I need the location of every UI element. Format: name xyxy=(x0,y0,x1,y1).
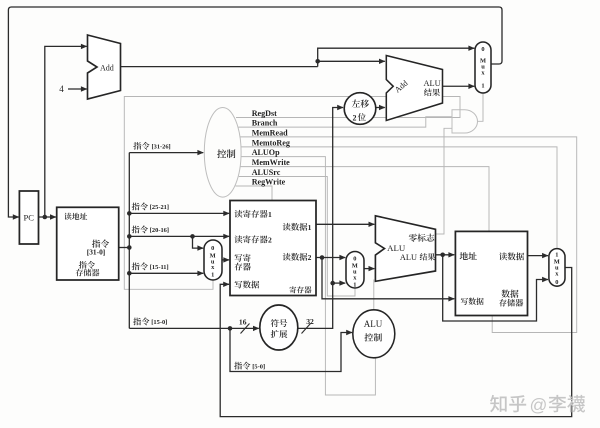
wire instruction [20-16] branch to RegDst mux input 0 xyxy=(190,234,204,251)
wire instruction [15-11] to RegDst mux input 1 xyxy=(127,271,204,276)
sign extend unit xyxy=(260,305,298,350)
instruction field label [15-0] xyxy=(133,318,167,327)
svg-text:[15-11]: [15-11] xyxy=(150,264,169,271)
svg-text:ALUSrc: ALUSrc xyxy=(252,168,281,177)
wire instruction [15-0] to sign extend xyxy=(129,326,259,331)
wire ALUSrc mux output to ALU xyxy=(364,266,375,271)
node PC+4 junction xyxy=(315,59,320,64)
watermark zhihu xyxy=(490,395,585,415)
wire instruction memory output to instruction bus xyxy=(119,247,130,249)
svg-text:MemtoReg: MemtoReg xyxy=(252,138,290,147)
control unit xyxy=(204,108,241,198)
register file xyxy=(230,201,316,296)
wire read data 2 branch to memory write data xyxy=(322,258,455,302)
svg-text:[15-0]: [15-0] xyxy=(151,319,167,326)
wire ALU result to data memory address xyxy=(436,252,455,257)
wire constant 4 into Add xyxy=(68,86,87,91)
mux RegDst (write register select) xyxy=(204,240,222,280)
svg-text:@: @ xyxy=(530,395,548,415)
svg-text:[25-21]: [25-21] xyxy=(150,204,169,211)
wire ALU control output to ALU xyxy=(373,280,375,310)
svg-text:MemRead: MemRead xyxy=(252,129,288,138)
wire MemRead control signal xyxy=(240,137,577,333)
PC register xyxy=(19,191,38,244)
svg-text:RegDst: RegDst xyxy=(252,109,277,118)
label 32 bits with slash xyxy=(302,317,315,334)
shift left 2 unit xyxy=(344,93,376,125)
wire read data 1 to ALU xyxy=(316,222,375,227)
value 4 constant xyxy=(59,84,64,94)
instruction memory xyxy=(57,207,119,280)
svg-text:2: 2 xyxy=(268,236,272,245)
wire Zero flag to AND gate xyxy=(436,128,452,234)
svg-text:1: 1 xyxy=(481,83,484,90)
svg-text:1: 1 xyxy=(308,223,312,232)
svg-text:ALU: ALU xyxy=(387,243,406,253)
svg-text:PC: PC xyxy=(24,213,35,223)
wire Branch control signal xyxy=(239,117,452,127)
svg-text:[31-0]: [31-0] xyxy=(87,248,105,257)
mux PC source (0/1) xyxy=(475,42,491,93)
adder Add (branch target) xyxy=(386,56,442,121)
wire instruction [20-16] to read register 2 xyxy=(127,234,230,239)
svg-text:1: 1 xyxy=(353,282,356,289)
wire Add result to PC mux input 0 xyxy=(121,46,475,67)
svg-text:[31-26]: [31-26] xyxy=(152,144,171,151)
instruction field label [25-21] xyxy=(132,203,169,212)
svg-text:[20-16]: [20-16] xyxy=(150,227,169,234)
svg-text:2: 2 xyxy=(308,253,312,262)
data memory xyxy=(455,231,527,315)
svg-text:4: 4 xyxy=(59,84,64,94)
wire instruction [31-26] to control xyxy=(129,150,204,155)
wire PC feedback from mux to PC xyxy=(8,7,502,220)
mux MemtoReg result (1/0) xyxy=(549,249,565,287)
instruction field label [20-16] xyxy=(132,226,169,235)
adder Add (PC+4) xyxy=(88,35,121,99)
wire RegDst mux output to write register xyxy=(222,257,230,262)
node instruction bus entry xyxy=(127,245,132,250)
svg-text:1: 1 xyxy=(268,210,272,219)
wire instruction [5-0] to ALU control xyxy=(230,328,353,371)
wire read data 2 to ALUSrc mux input 0 xyxy=(316,255,346,260)
control signal labels xyxy=(252,109,290,186)
svg-text:Branch: Branch xyxy=(252,118,278,127)
svg-text:0: 0 xyxy=(555,279,558,286)
wire shift-left-2 to branch Add xyxy=(376,105,385,110)
wire PC to instruction memory xyxy=(39,214,57,219)
svg-text:1: 1 xyxy=(211,272,214,279)
svg-text:Add: Add xyxy=(100,63,114,72)
wire sign extend output to shift-left and ALUSrc mux xyxy=(298,105,344,329)
instruction field label [5-0] xyxy=(234,362,265,371)
instruction field label [31-26] xyxy=(133,142,170,151)
svg-text:2: 2 xyxy=(353,113,357,122)
svg-text:0: 0 xyxy=(353,255,356,262)
wire PC+4 to branch Add xyxy=(318,59,386,64)
wire memory read data to result mux input 1 xyxy=(528,253,549,258)
svg-text:ALU: ALU xyxy=(364,319,383,329)
wire sign extend branch to ALUSrc mux input 1 xyxy=(333,280,346,285)
wire ALUOp control signal xyxy=(241,157,375,395)
svg-text:ALU: ALU xyxy=(424,79,441,88)
svg-text:16: 16 xyxy=(239,317,247,326)
wire RegWrite control signal xyxy=(236,186,273,201)
svg-text:0: 0 xyxy=(481,46,484,53)
wire instruction [25-21] to read register 1 xyxy=(127,211,230,216)
AND gate (branch) xyxy=(452,110,477,133)
wire MemtoReg control signal xyxy=(241,147,557,249)
svg-text:MemWrite: MemWrite xyxy=(252,158,290,167)
wire ALUSrc control signal xyxy=(239,177,355,297)
wire ALU result bypass to result mux input 0 xyxy=(443,255,549,321)
wire instruction bus vertical xyxy=(128,153,130,329)
wire MemWrite control signal xyxy=(241,167,490,232)
label 16 bits with slash xyxy=(239,317,250,333)
node PC output junction xyxy=(43,215,48,220)
wire PC to Add xyxy=(45,44,88,217)
svg-text:ALU: ALU xyxy=(400,253,417,262)
wire RegDst control signal xyxy=(124,97,460,290)
ALU control unit xyxy=(353,310,395,358)
mux ALUSrc xyxy=(346,252,364,289)
svg-text:0: 0 xyxy=(211,245,214,252)
wire AND gate output to PC mux select xyxy=(478,93,484,121)
svg-text:ALUOp: ALUOp xyxy=(252,148,280,157)
svg-text:1: 1 xyxy=(555,251,558,258)
wire write-back from Mux to register write data xyxy=(220,268,572,417)
svg-text:[5-0]: [5-0] xyxy=(252,363,265,370)
instruction field label [15-11] xyxy=(132,262,169,271)
svg-text:RegWrite: RegWrite xyxy=(252,177,286,186)
ALU main xyxy=(375,216,435,281)
wire branch Add result to PC mux input 1 xyxy=(443,84,475,89)
